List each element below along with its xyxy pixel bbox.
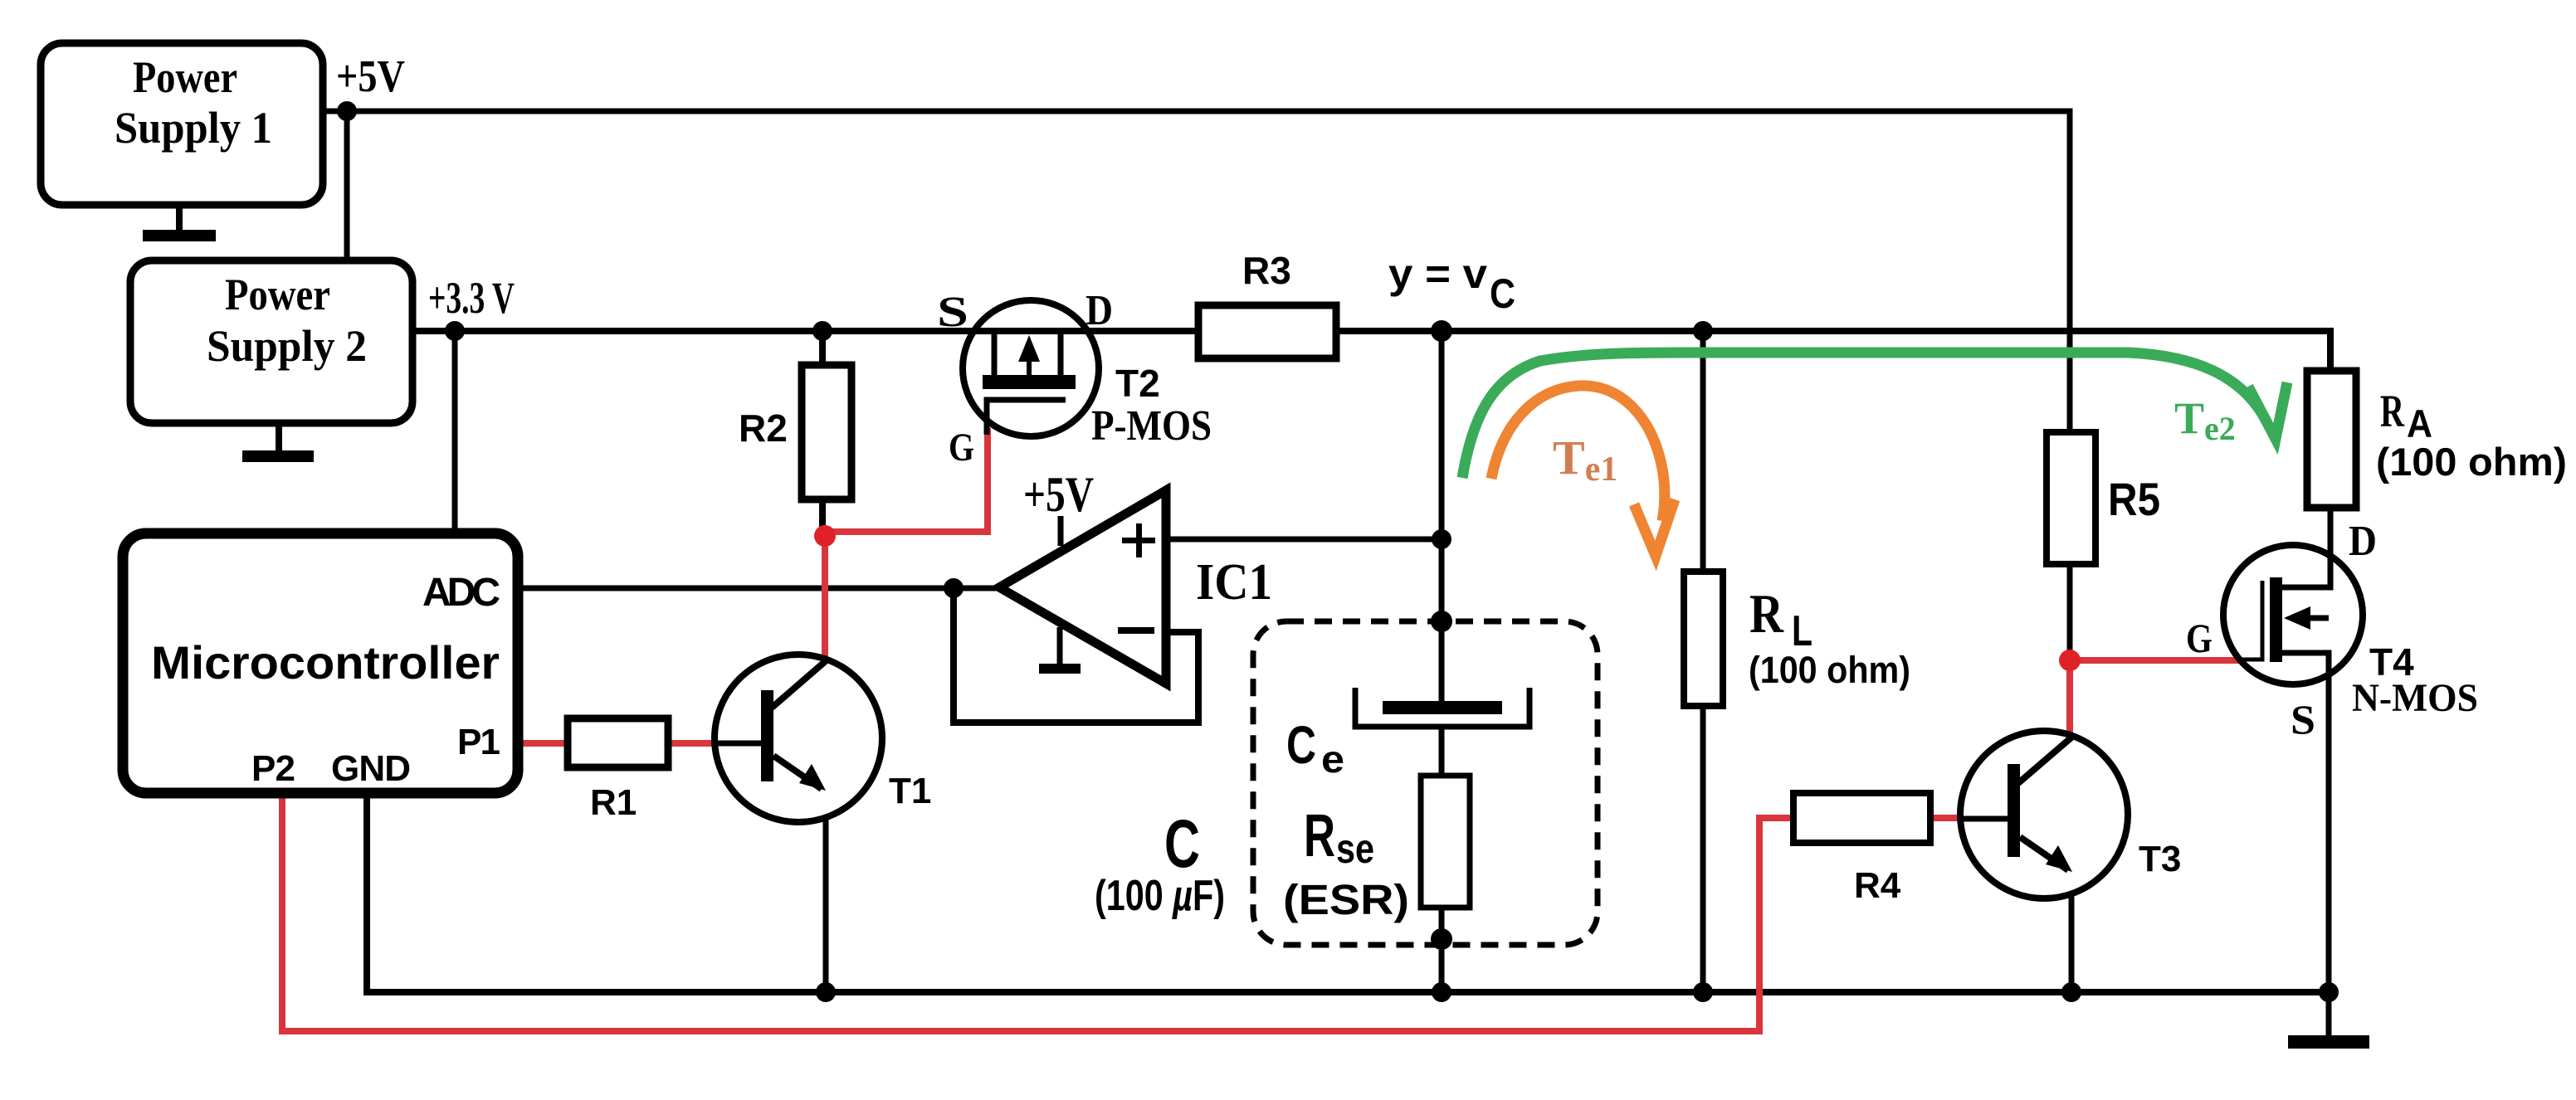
resistor R2	[802, 365, 851, 499]
RED DOTS	[814, 525, 2081, 671]
node R2/T2 gate red junction	[814, 525, 836, 547]
wire R5 bottom to red junction	[2067, 564, 2073, 655]
wire from +5V junction down to Power Supply 2	[344, 111, 350, 260]
transistor T1 emitter with arrow	[773, 756, 822, 789]
svg-text:R: R	[1749, 583, 1784, 645]
transistor T1 collector	[772, 660, 827, 708]
power supply 2 box	[130, 260, 412, 423]
svg-text:P2: P2	[251, 748, 295, 789]
wire capacitor Ce to Rse	[1439, 727, 1445, 776]
svg-text:C: C	[1286, 715, 1316, 775]
resistor R1	[568, 718, 668, 767]
transistor T2 body circle (under rail)	[963, 300, 1099, 436]
svg-text:Microcontroller: Microcontroller	[151, 636, 500, 689]
wire R2 bottom stub	[819, 499, 826, 536]
svg-text:D: D	[2349, 518, 2377, 565]
wire T1 emitter down to ground rail	[823, 784, 829, 992]
op-amp +5V supply stick	[1058, 516, 1064, 546]
wire red R5 junction to T4 gate and down to T3 collector	[2070, 660, 2241, 736]
wire red R4 to T3 base	[1930, 815, 1962, 821]
svg-text:(100 µF): (100 µF)	[1095, 872, 1225, 920]
dashed box around Ce and Rse	[1253, 621, 1598, 945]
transistor T3 base bar	[2008, 764, 2020, 857]
svg-text:T1: T1	[889, 771, 931, 811]
transistor T2 channel bar	[983, 375, 1076, 389]
wire R2 top stub	[819, 331, 826, 365]
transistor T3 base wire	[1960, 816, 2008, 822]
node y=vC junction	[1431, 320, 1452, 342]
transistor T2 gate line	[987, 400, 1066, 435]
node op-amp + input junction	[1432, 529, 1451, 549]
svg-text:+5V: +5V	[1023, 467, 1094, 522]
wire red P2 to R4 (control line)	[282, 793, 1793, 1031]
svg-text:N-MOS: N-MOS	[2352, 676, 2478, 720]
node op-amp output junction	[944, 578, 964, 598]
svg-text:T3: T3	[2139, 839, 2181, 879]
wire ADC line from Microcontroller to op-amp output	[518, 586, 999, 591]
svg-text:R5: R5	[2108, 473, 2160, 525]
resistor R4	[1793, 793, 1930, 843]
wire red P1 to R1	[518, 740, 568, 747]
transistor T4 body arrow	[2291, 616, 2329, 621]
RED WIRES	[282, 428, 2241, 1031]
op-amp + input sign	[1122, 538, 1155, 543]
svg-text:Power: Power	[133, 52, 237, 102]
svg-text:+3.3 V: +3.3 V	[428, 273, 515, 323]
transistor T3 emitter with arrow	[2020, 837, 2068, 870]
transistor T1 base wire	[712, 741, 762, 747]
node R2 top junction	[812, 321, 832, 341]
wire from +3.3V junction down to Microcontroller	[452, 331, 458, 533]
svg-text:(ESR): (ESR)	[1283, 876, 1409, 923]
wire RA bottom to T4 drain	[2328, 508, 2334, 587]
svg-text:R: R	[2380, 386, 2405, 436]
wire red R1 to T1 base	[668, 740, 714, 747]
node R5/T4 gate red junction	[2059, 650, 2081, 671]
svg-text:P1: P1	[457, 722, 500, 762]
power supply 1 box	[41, 43, 323, 205]
wire T3 emitter down to ground rail	[2069, 867, 2075, 992]
node RL bottom ground junction	[1693, 982, 1713, 1002]
wire RL branch vertical bottom	[1700, 706, 1706, 992]
svg-text:Supply 2: Supply 2	[207, 321, 367, 371]
transistor T4 gate line	[2241, 581, 2262, 660]
svg-text:e: e	[1321, 737, 1344, 781]
wire ground rail with GND drop from Microcontroller	[367, 793, 2329, 992]
wire op-amp + input to node	[1166, 537, 1442, 543]
wire +3.3V rail from Power Supply 2 to right side down to RA	[412, 331, 2330, 371]
ground (bottom right)	[2288, 1035, 2369, 1049]
node capacitor top junction	[1431, 611, 1452, 632]
node capacitor bottom junction	[1431, 928, 1452, 950]
capacitor Ce bottom plate cup	[1355, 688, 1529, 727]
transistor T4 drain lead inside	[2282, 555, 2330, 587]
capacitor Ce top plate	[1383, 701, 1502, 714]
svg-text:R4: R4	[1854, 865, 1901, 906]
node RL top junction	[1693, 321, 1713, 341]
svg-text:ADC: ADC	[422, 571, 500, 615]
ground (power supply 1)	[176, 205, 183, 236]
resistor RL	[1684, 572, 1723, 706]
ground (power supply 2)	[276, 423, 282, 454]
svg-text:R1: R1	[590, 782, 637, 823]
node capacitor ground junction	[1432, 982, 1451, 1002]
svg-text:IC1: IC1	[1196, 554, 1272, 611]
transistor T1 body circle	[715, 655, 882, 822]
wire +5V rail from Power Supply 1 to right side down to R5	[323, 111, 2070, 432]
transistor T4 source lead inside	[2282, 653, 2329, 684]
transistor T2 body arrow	[1027, 361, 1032, 375]
op-amp IC1 triangle	[999, 490, 1166, 684]
wire node y=vC down to capacitor C	[1439, 331, 1445, 701]
svg-text:S: S	[2291, 696, 2315, 742]
transistor T4 body circle	[2223, 545, 2363, 684]
wire op-amp feedback loop output to - input	[954, 585, 1198, 723]
svg-text:P-MOS: P-MOS	[1091, 402, 1212, 450]
svg-text:+5V: +5V	[336, 51, 405, 101]
transistor T1 base bar	[761, 690, 773, 781]
op-amp - input sign	[1118, 627, 1154, 634]
svg-text:(100 ohm): (100 ohm)	[2376, 440, 2567, 484]
wire T4 source down to ground rail	[2326, 653, 2332, 992]
svg-text:D: D	[1086, 287, 1113, 334]
svg-text:se: se	[1336, 825, 1374, 872]
annotation green arrow Te2	[1462, 353, 2287, 478]
resistor Rse	[1421, 776, 1470, 908]
wire Rse to ground rail	[1439, 908, 1445, 992]
resistor R5	[2047, 432, 2095, 564]
svg-text:Supply 1: Supply 1	[115, 103, 272, 153]
transistor T3 collector	[2018, 737, 2071, 783]
wire red T2 gate down to R2 junction node	[825, 428, 988, 659]
svg-text:R2: R2	[739, 406, 788, 450]
svg-text:Power: Power	[225, 270, 330, 319]
resistor R3	[1198, 305, 1336, 358]
svg-text:C: C	[1490, 270, 1515, 317]
wire RL branch vertical top	[1700, 331, 1706, 572]
svg-text:(100 ohm): (100 ohm)	[1749, 649, 1910, 691]
transistor T4 channel bar	[2270, 577, 2282, 662]
svg-text:C: C	[1164, 806, 1200, 882]
wire T4 ground stub	[2326, 992, 2332, 1039]
node +5V junction	[337, 101, 357, 121]
op-amp ground stick	[1057, 627, 1063, 669]
node +3.3V junction	[445, 321, 465, 341]
svg-text:G: G	[2186, 615, 2213, 661]
svg-text:R3: R3	[1242, 249, 1291, 292]
svg-text:S: S	[937, 289, 968, 336]
node T3 emitter ground junction	[2061, 982, 2081, 1002]
resistor RA	[2307, 371, 2356, 508]
svg-text:G: G	[949, 426, 974, 470]
svg-text:R: R	[1304, 803, 1335, 869]
svg-text:T2: T2	[1115, 362, 1160, 405]
node T4 source ground junction	[2319, 982, 2339, 1002]
svg-text:y = v: y = v	[1388, 251, 1487, 297]
svg-text:GND: GND	[331, 748, 411, 789]
microcontroller box	[123, 533, 518, 793]
node T1 emitter ground junction	[816, 982, 836, 1002]
annotation orange arrow Te1	[1491, 386, 1675, 556]
transistor T2 internals: source/drain legs	[994, 331, 1061, 377]
transistor T3 body circle	[1960, 731, 2128, 898]
